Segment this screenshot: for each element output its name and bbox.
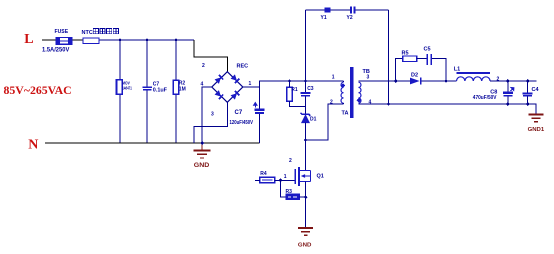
bridge rectifier REC outline (212, 72, 243, 103)
bridge diode bottom-right (230, 91, 239, 100)
diode D2 (410, 78, 421, 85)
svg-text:REC: REC (237, 64, 249, 70)
svg-text:470uF/50V: 470uF/50V (473, 95, 497, 101)
node drain-D1 (304, 138, 308, 142)
wire Y loop right (388, 10, 390, 104)
ground GND1 (529, 115, 544, 122)
wire snubber riser right (432, 59, 446, 81)
wire C3 top (305, 81, 307, 92)
wire C4 top (527, 81, 529, 93)
svg-text:1: 1 (284, 174, 287, 180)
wire snubber riser left (396, 59, 403, 81)
wire fuse to NTC (72, 39, 83, 41)
thermistor NTC (83, 38, 99, 44)
wire X-cap branch (146, 40, 148, 86)
svg-text:1: 1 (249, 81, 252, 87)
svg-text:D2: D2 (411, 72, 418, 78)
capacitor C8 plus mark (511, 88, 514, 92)
wire bridge plus to bulk cap (243, 86, 259, 88)
node pin4-Y (387, 102, 391, 106)
svg-text:FUSE: FUSE (55, 29, 69, 35)
node N-GND (200, 141, 204, 145)
svg-text:1: 1 (332, 75, 335, 81)
wire Y loop left (305, 10, 307, 81)
wire L1 to output (490, 80, 536, 82)
transformer polarity dot secondary (357, 98, 362, 103)
svg-text:D1: D1 (310, 117, 317, 123)
svg-text:L: L (24, 32, 33, 47)
node L-C7x (145, 38, 149, 42)
node gate (279, 178, 283, 182)
capacitor C7 bulk (254, 108, 264, 113)
wire Y loop top (306, 9, 351, 11)
node L-R2 (174, 38, 178, 42)
node out-C8 (506, 79, 510, 83)
wire DC+ rail (259, 81, 343, 108)
wire L rail (42, 39, 56, 41)
resistor R2 (173, 80, 178, 94)
wire NTC to bridge corner (99, 39, 194, 41)
svg-text:MOV: MOV (122, 80, 130, 86)
node rail-R1 (288, 79, 292, 83)
resistor R3 (286, 194, 300, 200)
resistor R4 (260, 177, 275, 182)
transformer secondary winding TB (359, 82, 361, 103)
node out-C4 (526, 79, 530, 83)
ground GND mid (194, 143, 211, 158)
svg-text:R2: R2 (179, 80, 186, 86)
capacitor C7 bulk plus mark (254, 103, 257, 108)
wire C4 bottom (527, 97, 529, 104)
svg-text:4: 4 (201, 81, 204, 87)
svg-text:3: 3 (211, 112, 214, 118)
wire R3 right (300, 196, 306, 198)
svg-text:14d471: 14d471 (122, 86, 132, 92)
capacitor Y1 (325, 8, 331, 13)
svg-text:GND1: GND1 (528, 127, 545, 133)
wire bulk cap to N bus (258, 114, 260, 143)
wire R1 bottom (290, 101, 306, 107)
svg-text:R3: R3 (286, 189, 293, 195)
svg-text:Y2: Y2 (347, 15, 353, 21)
inductor L1 core bar (457, 72, 491, 74)
svg-text:2: 2 (330, 99, 333, 105)
transformer primary winding TA (341, 82, 343, 103)
svg-text:Q1: Q1 (317, 174, 324, 180)
wire bridge minus to N bus (202, 87, 212, 143)
bridge diode top-left (214, 75, 223, 84)
node ret-C4 (526, 102, 530, 106)
capacitor C5 (426, 54, 432, 65)
svg-text:R5: R5 (402, 50, 409, 56)
capacitor C8 (503, 92, 513, 97)
svg-text:R4: R4 (260, 171, 267, 177)
node L-MOV (118, 38, 122, 42)
node rail-C3 (304, 79, 308, 83)
svg-text:1.5A/250V: 1.5A/250V (42, 48, 69, 54)
NTC chinese chars (93, 29, 118, 34)
svg-text:Y1: Y1 (321, 15, 327, 21)
wire R5 to C5 (417, 58, 427, 60)
svg-text:2: 2 (289, 158, 292, 164)
resistor R1 (287, 87, 293, 101)
capacitor Y2 (350, 7, 355, 14)
node source-R3 (304, 195, 308, 199)
wire D2 to L1 (421, 80, 456, 82)
wire N rail (45, 142, 259, 144)
node D2-snubber (444, 79, 448, 83)
wire secondary pin3 to D2 (359, 80, 411, 82)
capacitor C7 X-cap (143, 86, 152, 90)
wire R4 left (255, 179, 260, 181)
svg-text:3: 3 (367, 75, 370, 81)
wire N jog to bridge bottom (194, 102, 227, 143)
svg-text:120uF/450V: 120uF/450V (230, 120, 254, 126)
svg-text:GND: GND (298, 243, 312, 249)
wire D1 bottom (305, 123, 307, 140)
resistor R5 (403, 56, 417, 62)
wire C8 bottom (507, 97, 509, 104)
wire D1 top (305, 107, 307, 114)
ground GND mosfet (298, 228, 313, 235)
svg-text:1M: 1M (179, 87, 186, 93)
wire drain drop (305, 140, 307, 170)
wire source drop (305, 182, 307, 228)
svg-text:C4: C4 (532, 87, 540, 93)
svg-text:R1: R1 (291, 87, 298, 93)
svg-text:GND: GND (194, 162, 210, 169)
bridge diode top-right (230, 74, 239, 83)
node ret-C8 (506, 102, 510, 106)
wire R4 to gate (275, 179, 295, 181)
svg-text:85V~265VAC: 85V~265VAC (4, 83, 72, 97)
svg-text:2: 2 (202, 63, 205, 69)
wire step to bridge top (194, 40, 227, 72)
svg-text:C5: C5 (424, 46, 431, 52)
fuse F1 (56, 38, 72, 45)
svg-text:C3: C3 (307, 86, 314, 92)
svg-text:TA: TA (342, 111, 349, 117)
wire primary top stub (343, 81, 345, 82)
svg-text:N: N (28, 137, 38, 152)
wire primary bottom stub (343, 102, 345, 105)
wire R1 top (289, 81, 291, 87)
varistor MOV (117, 80, 123, 95)
svg-text:NTC: NTC (82, 30, 93, 36)
wire MOV branch (119, 40, 121, 80)
transformer core (350, 67, 353, 118)
transformer polarity dot primary (340, 83, 345, 88)
node pin3-snubber (394, 79, 398, 83)
diode D1 (301, 113, 311, 123)
bridge diode bottom-left (214, 90, 223, 99)
svg-text:0.1uF: 0.1uF (153, 87, 168, 93)
wire secondary return rail (359, 104, 537, 114)
wire primary pin2 jog (306, 104, 344, 140)
wire C8 top (507, 81, 509, 92)
svg-text:C7: C7 (235, 110, 243, 116)
wire R2 branch (175, 40, 177, 80)
svg-text:L1: L1 (454, 67, 460, 73)
capacitor C4 (523, 93, 533, 97)
inductor L1 winding (457, 77, 491, 81)
wire R3 branch (281, 180, 286, 197)
transistor Q1 (294, 167, 310, 186)
capacitor C3 (301, 92, 311, 97)
wire C3 bottom (305, 97, 307, 107)
